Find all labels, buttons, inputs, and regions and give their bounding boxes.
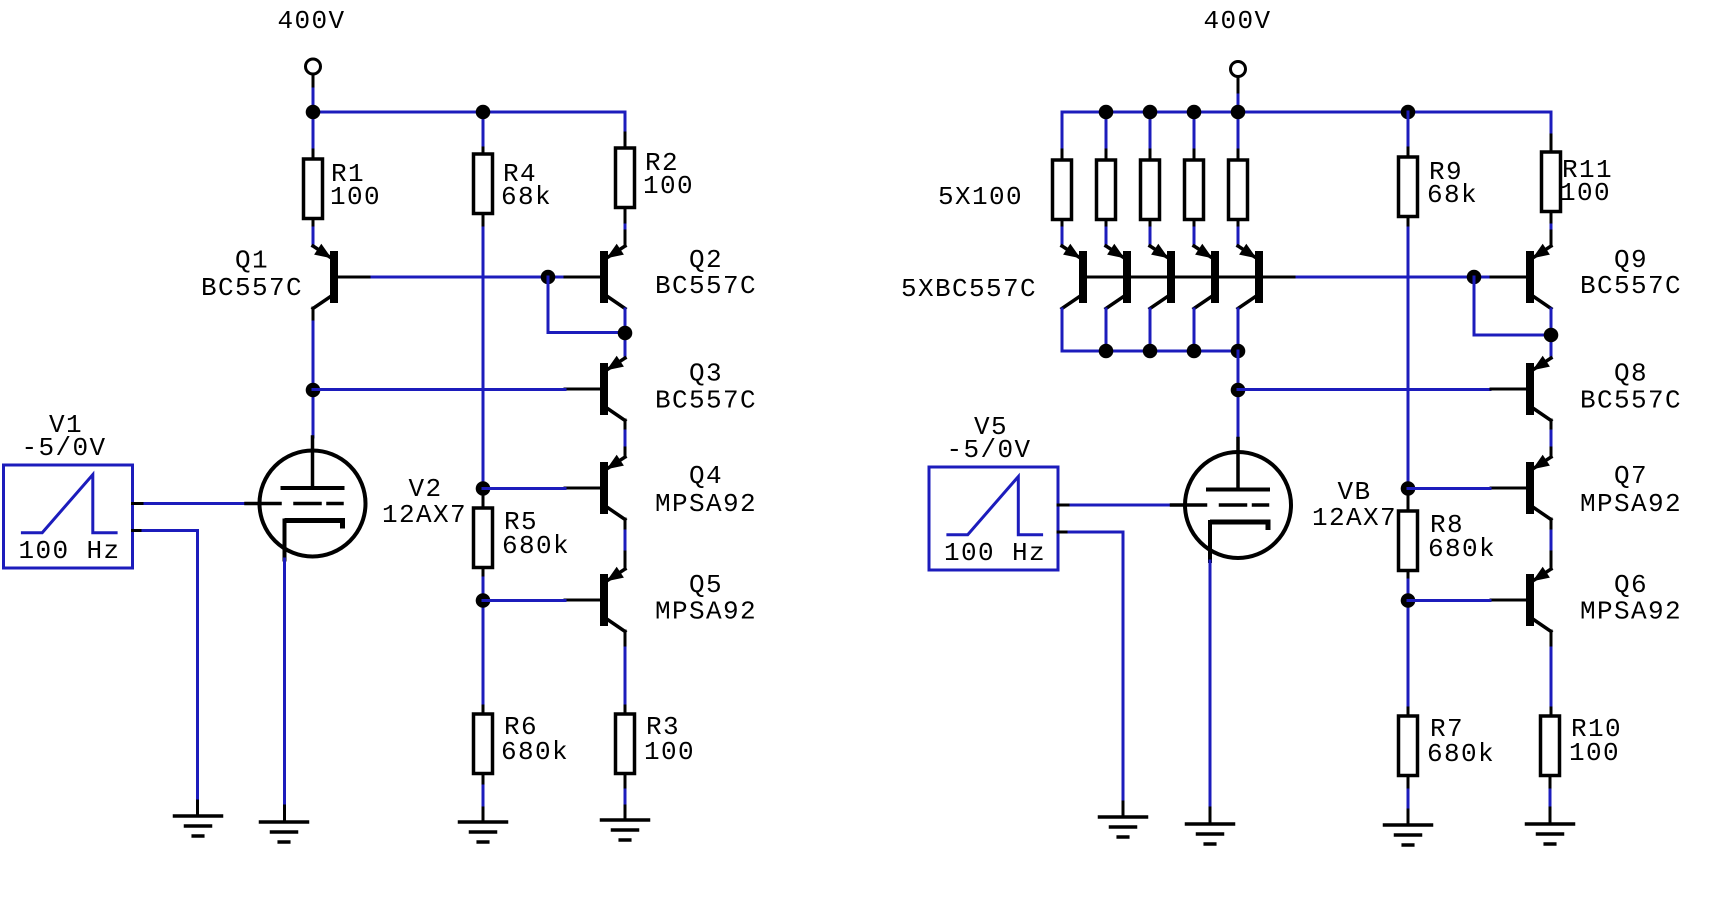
resistor R3: [616, 714, 635, 774]
transistor Q4 MPSA92: [624, 448, 627, 457]
wire Q6 collector to R10: [1550, 648, 1553, 708]
junction bus col 3: [1143, 105, 1158, 120]
junction bus/R4: [476, 105, 491, 120]
wire bus down to R1: [312, 112, 315, 150]
junction Q1/Q2 base tie: [541, 270, 556, 285]
svg-text:MPSA92: MPSA92: [1580, 489, 1682, 519]
svg-text:Q6: Q6: [1614, 570, 1648, 600]
wire 5X collector 2 down: [1105, 309, 1108, 351]
transistor Q6 MPSA92: [1550, 552, 1553, 569]
svg-text:680k: 680k: [1427, 739, 1495, 769]
junction bus/R1: [306, 105, 321, 120]
svg-text:-5/0V: -5/0V: [946, 435, 1031, 465]
junction Q9 collector / Q8 emitter: [1544, 328, 1559, 343]
wire V1 minus to ground: [133, 529, 144, 532]
svg-text:Q7: Q7: [1614, 461, 1648, 491]
wire V5 plus to tube grid: [1058, 504, 1071, 507]
wire Q7 collector to Q6 emitter: [1550, 531, 1553, 553]
svg-text:680k: 680k: [501, 737, 569, 767]
junction collector bus: [1231, 344, 1246, 359]
svg-text:100: 100: [330, 182, 381, 212]
svg-text:100: 100: [1569, 738, 1620, 768]
junction R8/R7/Q6 base: [1401, 593, 1416, 608]
svg-text:680k: 680k: [1428, 534, 1496, 564]
ground of R3: [602, 818, 649, 822]
wire R6 to ground: [482, 776, 485, 786]
ground of R7: [1385, 823, 1432, 827]
wire R8 to R7: [1407, 571, 1410, 580]
wire terminal to bus: [312, 75, 315, 89]
wire R11 to Q9 emitter: [1550, 214, 1553, 225]
wire V5 minus to ground: [1058, 531, 1069, 534]
wire Q9 base tie down: [1473, 277, 1476, 335]
wire node to Q5 base: [483, 599, 565, 602]
transistor Q8 BC557C: [1534, 358, 1552, 370]
wire R8 top stub: [1407, 492, 1410, 511]
wire Q3 collector to Q4 emitter: [624, 431, 627, 453]
transistor Q7 MPSA92: [1550, 448, 1553, 457]
svg-text:MPSA92: MPSA92: [1580, 597, 1682, 627]
svg-text:MPSA92: MPSA92: [655, 597, 757, 627]
transistor Q2 BC557C: [624, 231, 627, 246]
ground of cathode (right): [1187, 822, 1234, 826]
wire cathode to ground: [283, 559, 286, 806]
svg-text:12AX7: 12AX7: [1312, 503, 1397, 533]
transistor Q5 MPSA92: [624, 552, 627, 569]
resistors 5X100: [1053, 160, 1072, 220]
svg-text:BC557C: BC557C: [201, 273, 303, 303]
svg-text:Q4: Q4: [689, 461, 723, 491]
wire 400V bus (left): [313, 111, 625, 114]
svg-text:BC557C: BC557C: [1580, 386, 1682, 416]
resistor R4: [474, 154, 493, 214]
wire 400V bus (right): [1062, 111, 1551, 114]
svg-text:Q1: Q1: [235, 246, 269, 276]
triode VB 12AX7: [1185, 452, 1291, 558]
svg-text:100: 100: [643, 171, 694, 201]
svg-text:Q5: Q5: [689, 570, 723, 600]
wire Q8 collector to Q7 emitter: [1550, 431, 1553, 453]
svg-text:100 Hz: 100 Hz: [19, 536, 121, 566]
wire 5X collector 5 down: [1237, 309, 1240, 351]
wire 5X collector 4 down: [1193, 309, 1196, 351]
wire Q1 base to Q2 base: [372, 276, 565, 279]
junction collector bus: [1143, 344, 1158, 359]
svg-text:400V: 400V: [277, 6, 345, 36]
resistor R9: [1399, 157, 1418, 217]
wire V1 plus to tube grid: [133, 502, 146, 505]
wire collector bus (bottom of 5X): [1062, 350, 1238, 353]
wire cathode to ground (right): [1209, 561, 1212, 808]
svg-text:12AX7: 12AX7: [382, 500, 467, 530]
wire Q9 collector to Q8 emitter: [1550, 309, 1553, 358]
ground of V1: [175, 814, 222, 818]
wire base tie to Q2 collector: [548, 331, 625, 334]
svg-text:5X100: 5X100: [938, 182, 1023, 212]
svg-text:5XBC557C: 5XBC557C: [901, 274, 1037, 304]
resistor R5: [474, 508, 493, 568]
wire base tie down: [547, 277, 550, 333]
wire Q1 collector down to tube anode: [312, 322, 315, 437]
svg-text:MPSA92: MPSA92: [655, 489, 757, 519]
junction bus col 2: [1099, 105, 1114, 120]
svg-text:BC557C: BC557C: [655, 271, 757, 301]
wire R5 top stub: [482, 492, 485, 508]
resistor R2: [616, 148, 635, 208]
junction Q9 base tie: [1467, 270, 1482, 285]
svg-text:400V: 400V: [1203, 6, 1271, 36]
svg-text:68k: 68k: [1427, 180, 1478, 210]
voltage source V5 box: [929, 467, 1058, 570]
resistor R7: [1399, 716, 1418, 776]
wire 5X collector 1 down: [1061, 309, 1064, 351]
wire collector bus down to anode node: [1237, 351, 1240, 437]
resistor R1: [304, 159, 323, 219]
svg-text:100 Hz: 100 Hz: [944, 538, 1046, 568]
wire bus down to 5X resistor 3: [1149, 112, 1152, 150]
junction Q2 collector / Q3 emitter: [618, 326, 633, 341]
wire R5 to R6: [482, 568, 485, 578]
wire bus down to 5X resistor 5: [1237, 112, 1240, 150]
junction anode node (right): [1231, 383, 1246, 398]
svg-text:Q8: Q8: [1614, 359, 1648, 389]
node 400V supply terminal (right): [1231, 62, 1246, 77]
svg-text:-5/0V: -5/0V: [21, 433, 106, 463]
ground of R10: [1527, 822, 1574, 826]
voltage source V1 box: [4, 465, 133, 568]
wire node to Q7 base: [1408, 487, 1490, 490]
wire Q2 collector to Q3 emitter: [624, 309, 627, 358]
wire bus down to 5X resistor 4: [1193, 112, 1196, 150]
wire node B to Q4 base: [483, 487, 565, 490]
triode V2 12AX7: [260, 451, 366, 557]
wire R9 top: [1407, 112, 1410, 148]
junction bus/R9: [1401, 105, 1416, 120]
junction bus col 5: [1231, 105, 1246, 120]
transistor Q9 BC557C: [1550, 231, 1553, 246]
wire bus down to R4: [482, 112, 485, 148]
resistor R10: [1541, 716, 1560, 776]
wire R9 down to node (long): [1407, 219, 1410, 228]
ground of V5: [1100, 815, 1147, 819]
wire base tie to Q9 collector: [1474, 334, 1551, 337]
wire R2 to Q2 emitter: [624, 210, 627, 225]
junction R4/R5/Q4 base: [476, 481, 491, 496]
svg-text:100: 100: [644, 737, 695, 767]
junction R9/R8/Q7 base: [1401, 481, 1416, 496]
wire node to Q3 base: [313, 388, 565, 391]
wire 5X resistor 2 to emitter: [1105, 222, 1108, 228]
svg-text:BC557C: BC557C: [655, 386, 757, 416]
wire anode node to Q8 base: [1238, 388, 1490, 391]
wire R7 to ground: [1407, 778, 1410, 790]
wire R3 to ground: [624, 776, 627, 790]
wire bus corner down to R2: [624, 112, 627, 133]
svg-text:Q3: Q3: [689, 359, 723, 389]
wire bus down to 5X resistor 1: [1061, 112, 1064, 150]
wire Q5 collector to R3: [624, 648, 627, 706]
junction Q1 collector / Q3 base / anode: [306, 383, 321, 398]
wire bus down to 5X resistor 2: [1105, 112, 1108, 150]
svg-text:BC557C: BC557C: [1580, 271, 1682, 301]
wire 5X resistor 3 to emitter: [1149, 222, 1152, 228]
wire terminal to bus (right): [1237, 77, 1240, 95]
resistor R11: [1542, 152, 1561, 212]
resistor R6: [474, 714, 493, 774]
ground of R6: [460, 820, 507, 824]
junction collector bus: [1099, 344, 1114, 359]
wire Q4 collector to Q5 emitter: [624, 531, 627, 553]
wire R1 to Q1 emitter: [312, 221, 315, 228]
junction R5/R6/Q5 base: [476, 593, 491, 608]
wire 5X resistor 4 to emitter: [1193, 222, 1196, 228]
svg-text:68k: 68k: [501, 182, 552, 212]
ground of cathode: [261, 820, 308, 824]
transistor Q1 BC557C: [313, 246, 331, 258]
wire 5X collector 3 down: [1149, 309, 1152, 351]
transistor Q3 BC557C: [608, 358, 626, 370]
node 400V supply terminal (left): [306, 59, 321, 74]
wire common base bus of 5X transistors: [1086, 276, 1297, 279]
junction bus col 4: [1187, 105, 1202, 120]
wire 5X resistor 5 to emitter: [1237, 222, 1240, 228]
svg-text:100: 100: [1560, 178, 1611, 208]
resistor R8: [1399, 511, 1418, 571]
wire R4 down to node B (long): [482, 216, 485, 228]
wire R10 to ground: [1549, 778, 1552, 790]
wire 5X resistor 1 to emitter: [1061, 222, 1064, 228]
wire node to Q6 base: [1408, 599, 1490, 602]
svg-text:680k: 680k: [502, 531, 570, 561]
transistors 5XBC557C: [1062, 246, 1080, 258]
wire bus corner down to R11: [1550, 112, 1553, 135]
junction collector bus: [1187, 344, 1202, 359]
